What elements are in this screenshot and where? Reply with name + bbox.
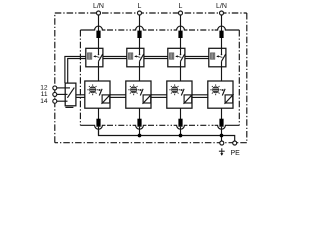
linkage right vertical: [238, 30, 240, 125]
terminal 12: [53, 86, 57, 90]
svg-text:L: L: [138, 3, 142, 10]
svg-text:L: L: [179, 3, 183, 10]
svg-text:L/N: L/N: [93, 3, 104, 10]
linkage top solid arcs: [80, 26, 105, 30]
enclosure border (dash-dot): [55, 13, 247, 143]
linkage bottom solid arcs: [80, 125, 105, 129]
terminal L/N col1: [97, 11, 101, 15]
stub 14: [57, 100, 68, 102]
mechanical linkage (dash-dot inner): [80, 26, 239, 129]
remote signalling contact (relay): [57, 83, 76, 107]
switch mechanical double bus: [65, 56, 209, 83]
border left: [54, 13, 56, 143]
linkage top dash-dot segments: [107, 29, 131, 31]
PE bus: [99, 129, 235, 141]
svg-text:14: 14: [40, 98, 48, 105]
svg-text:PE: PE: [231, 150, 241, 157]
relay to varistor box 1: [76, 94, 85, 96]
column 2 L path: [126, 15, 152, 136]
svg-text:L/N: L/N: [216, 3, 227, 10]
svg-text:11: 11: [41, 91, 48, 98]
varistor mechanical double bus: [76, 95, 208, 98]
relay box: [65, 83, 76, 106]
terminal PE right: [233, 141, 237, 145]
terminal L col2: [138, 11, 142, 15]
border bottom: [55, 142, 247, 144]
relay blade: [67, 88, 74, 98]
stub 12: [57, 87, 70, 89]
terminal 11: [53, 92, 57, 96]
border top: [55, 12, 247, 14]
left extension to relay: [65, 56, 86, 83]
column 3 L path: [167, 15, 193, 136]
terminal 14: [53, 99, 57, 103]
terminal PE left: [220, 141, 224, 145]
junction dot col2: [138, 134, 142, 138]
junction dot col3: [179, 134, 183, 138]
junction dot col4: [220, 134, 224, 138]
under-box line: [65, 106, 73, 108]
earth symbol: [219, 148, 225, 155]
border right: [246, 13, 248, 143]
terminal L col3: [179, 11, 183, 15]
terminal L/N col4: [220, 11, 224, 15]
column 4 L/N path: [208, 15, 234, 136]
linkage bottom dash-dot segments: [107, 124, 131, 126]
column 1 L/N path: [85, 15, 111, 136]
stub 11: [57, 93, 68, 95]
linkage left vertical: [79, 30, 81, 125]
